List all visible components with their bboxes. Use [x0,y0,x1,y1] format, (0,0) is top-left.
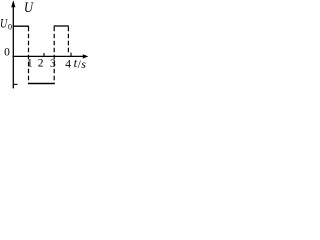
svg-text:0: 0 [8,23,12,32]
dashed transition at t=1 [28,27,30,84]
svg-text:3: 3 [50,58,56,70]
axis tick at t=4 [70,53,72,57]
svg-text:2: 2 [38,58,44,70]
U axis (vertical) [12,2,14,88]
t axis arrowhead [83,54,89,58]
U axis arrowhead [11,0,15,7]
negative segment 1 to 2 at -U0 [28,83,55,85]
svg-text:4: 4 [65,59,71,71]
svg-text:U: U [24,0,34,16]
pulse top segment 0 to 1 [13,25,29,27]
pulse top segment 2 to 3 [54,25,69,27]
dashed transition at t=3 [67,27,69,53]
t axis (horizontal) [13,55,85,57]
svg-text:s: s [81,59,86,71]
svg-text:1: 1 [27,57,33,69]
svg-text:0: 0 [4,47,10,59]
dashed transition at t=2 end [53,27,55,84]
axis tick at t=2 [43,53,45,57]
tick at -U0 on U axis [13,83,17,85]
svg-text:U: U [0,18,8,31]
